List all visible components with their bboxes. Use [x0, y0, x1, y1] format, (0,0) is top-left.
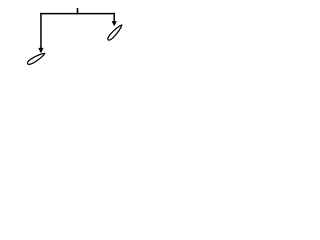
wire (top horizontal bus): [40, 13, 115, 15]
arrow (right, pointing down): [112, 21, 117, 26]
wire (right vertical drop): [113, 13, 115, 21]
node A (center terminal tick): [77, 8, 79, 14]
arrow (left, pointing down): [38, 48, 43, 53]
component (right slanted oval electrode): [107, 24, 124, 42]
wire (left vertical drop): [40, 13, 42, 48]
component (left slanted oval electrode): [26, 51, 46, 65]
